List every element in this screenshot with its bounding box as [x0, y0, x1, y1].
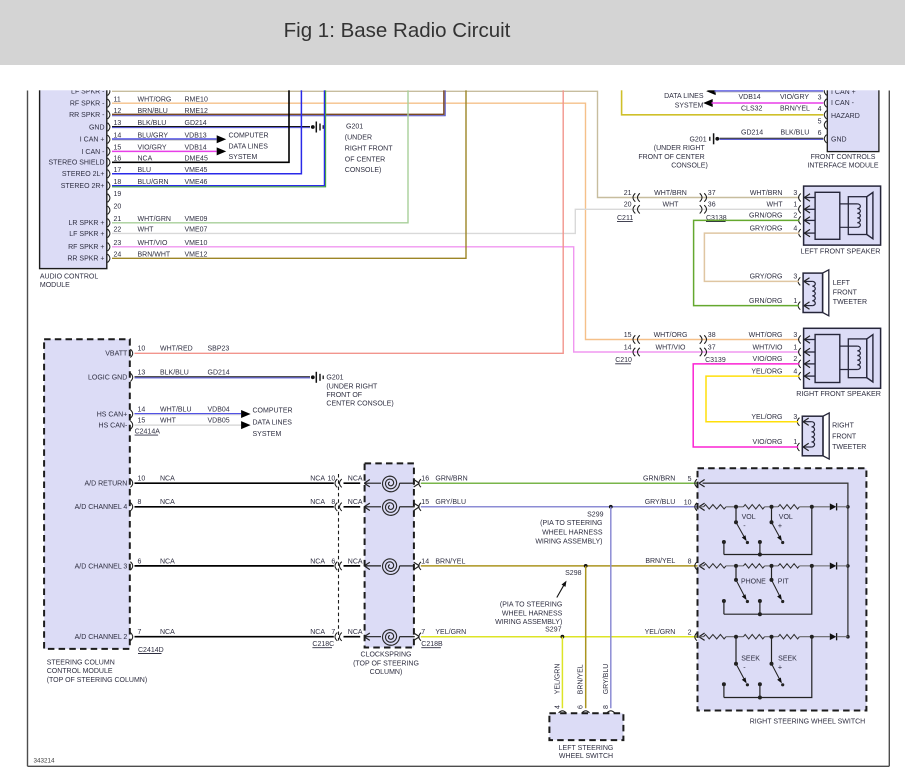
- svg-text:FRONT OF: FRONT OF: [326, 392, 362, 399]
- wire WHT/BRN pin10 to C211-21: [112, 91, 800, 197]
- svg-text:HAZARD: HAZARD: [831, 113, 860, 120]
- ACM pin 21 LR SPKR +: [108, 219, 110, 227]
- svg-text:RIGHT: RIGHT: [832, 423, 855, 430]
- svg-text:RME10: RME10: [185, 96, 208, 103]
- wire WHT pin22 to C211-20: [112, 209, 800, 233]
- FCIM pin 2 wire VDB13 BLU/GRY with data-lines arrow: [706, 87, 716, 95]
- svg-text:WHT/GRN: WHT/GRN: [138, 216, 171, 223]
- top clip overlay: [0, 65, 905, 91]
- clockspring coil row pin 15: [365, 506, 381, 508]
- svg-text:S299: S299: [587, 512, 603, 519]
- svg-text:VIO/ORG: VIO/ORG: [753, 356, 783, 363]
- svg-text:4: 4: [818, 106, 822, 113]
- svg-text:14: 14: [624, 344, 632, 351]
- svg-text:(TOP OF STEERING: (TOP OF STEERING: [353, 660, 419, 667]
- svg-text:WHT/ORG: WHT/ORG: [654, 332, 688, 339]
- ACM pin 17 STEREO 2L+: [108, 170, 110, 178]
- svg-text:HS CAN+: HS CAN+: [97, 411, 128, 418]
- wire BLU pin17 up to clip: [112, 86, 301, 174]
- switch blade 1: [735, 637, 737, 664]
- svg-text:RIGHT FRONT SPEAKER: RIGHT FRONT SPEAKER: [796, 389, 881, 398]
- svg-text:G201: G201: [689, 137, 706, 144]
- svg-text:WHT/VIO: WHT/VIO: [753, 344, 783, 351]
- ACM pin 23 RF SPKR +: [108, 243, 110, 251]
- SCCM pin 10 A/D RETURN: [130, 479, 132, 487]
- svg-text:2: 2: [688, 629, 692, 636]
- svg-text:A/D CHANNEL 4: A/D CHANNEL 4: [75, 504, 128, 511]
- svg-text:WIRING ASSEMBLY): WIRING ASSEMBLY): [495, 619, 562, 626]
- svg-text:WHEEL HARNESS: WHEEL HARNESS: [542, 529, 603, 536]
- splice S299: [609, 505, 613, 509]
- svg-text:VOL: VOL: [742, 514, 756, 521]
- svg-text:NCA: NCA: [348, 499, 363, 506]
- svg-text:VME10: VME10: [185, 240, 208, 247]
- svg-text:WHT: WHT: [663, 202, 680, 209]
- svg-text:DATA LINES: DATA LINES: [664, 93, 704, 100]
- svg-text:SYSTEM: SYSTEM: [229, 154, 258, 161]
- svg-text:BLU/GRN: BLU/GRN: [138, 179, 169, 186]
- svg-text:WHT: WHT: [767, 202, 784, 209]
- wire NCA A/D CHANNEL 4 to clockspring: [135, 506, 334, 508]
- svg-text:6: 6: [138, 558, 142, 565]
- svg-text:S298: S298: [565, 570, 581, 577]
- svg-text:19: 19: [114, 191, 122, 198]
- frame bottom border: [28, 765, 890, 767]
- svg-text:GRN/BRN: GRN/BRN: [643, 475, 675, 482]
- ACM pin 13 GND: [108, 123, 110, 131]
- svg-text:16: 16: [421, 476, 429, 483]
- svg-text:20: 20: [114, 203, 122, 210]
- svg-text:BLK/BLU: BLK/BLU: [160, 370, 189, 377]
- svg-text:TWEETER: TWEETER: [832, 444, 866, 451]
- svg-text:STEREO 2L+: STEREO 2L+: [62, 171, 105, 178]
- FCIM pin 5 no wire: [824, 121, 826, 129]
- svg-text:18: 18: [114, 179, 122, 186]
- svg-text:(UNDER RIGHT: (UNDER RIGHT: [326, 383, 378, 390]
- svg-text:NCA: NCA: [160, 499, 175, 506]
- ACM pin 14 I CAN +: [108, 135, 110, 143]
- svg-text:(UNDER RIGHT: (UNDER RIGHT: [654, 145, 706, 152]
- svg-text:HS CAN-: HS CAN-: [99, 423, 128, 430]
- wire YEL/GRN clockspring to right steering wheel switch: [421, 636, 700, 638]
- svg-text:+: +: [778, 521, 782, 530]
- svg-text:NCA: NCA: [160, 558, 175, 565]
- svg-text:21: 21: [114, 216, 122, 223]
- svg-text:6: 6: [578, 705, 585, 709]
- svg-text:YEL/ORG: YEL/ORG: [751, 414, 782, 421]
- wire WHT/VIO pin23 to C210-14: [112, 247, 800, 352]
- svg-text:11: 11: [114, 96, 121, 103]
- LSWS pin arcs 4 6 8: [559, 711, 567, 713]
- svg-text:COMPUTER: COMPUTER: [253, 408, 293, 415]
- svg-text:RF SPKR +: RF SPKR +: [68, 244, 104, 251]
- FCIM pin 4 wire CLS32 BRN/YEL from clip: [622, 90, 824, 115]
- svg-text:C2414A: C2414A: [135, 429, 161, 436]
- wire BRN/YEL clockspring to right steering wheel switch: [421, 565, 700, 567]
- svg-text:CENTER CONSOLE): CENTER CONSOLE): [326, 401, 393, 408]
- svg-text:4: 4: [793, 225, 797, 232]
- svg-text:BLU: BLU: [138, 167, 152, 174]
- svg-text:8: 8: [138, 499, 142, 506]
- left front speaker LS1: [804, 186, 881, 245]
- svg-text:I CAN +: I CAN +: [80, 137, 105, 144]
- svg-text:GD214: GD214: [741, 130, 763, 137]
- ACM pin 18 STEREO 2R+: [108, 182, 110, 190]
- svg-text:GRY/BLU: GRY/BLU: [435, 499, 466, 506]
- svg-text:4: 4: [793, 368, 797, 375]
- RSWS resistor ladder row y=636.7: [699, 633, 705, 637]
- splice S297: [561, 635, 565, 639]
- svg-text:10: 10: [684, 499, 692, 506]
- svg-text:VDB04: VDB04: [208, 406, 230, 413]
- wire GRY/BLU clockspring to right steering wheel switch: [421, 506, 700, 508]
- wire BRN/WHT pin24 up to clip: [112, 86, 466, 258]
- clockspring coil row pin 16: [365, 482, 381, 484]
- svg-text:AUDIO CONTROL: AUDIO CONTROL: [40, 273, 98, 280]
- svg-text:3: 3: [793, 190, 797, 197]
- svg-text:VDB14: VDB14: [739, 94, 761, 101]
- svg-text:GRN/ORG: GRN/ORG: [749, 298, 782, 305]
- svg-text:BRN/YEL: BRN/YEL: [435, 558, 465, 565]
- svg-text:3: 3: [818, 94, 822, 101]
- wire NCA A/D CHANNEL 3 to clockspring: [135, 565, 334, 567]
- svg-text:SYSTEM: SYSTEM: [253, 431, 282, 438]
- svg-text:RF SPKR -: RF SPKR -: [70, 101, 105, 108]
- SCCM pin 6 A/D CHANNEL 3: [130, 562, 132, 570]
- svg-text:VOL: VOL: [779, 514, 793, 521]
- svg-text:(PIA TO STEERING: (PIA TO STEERING: [500, 601, 562, 608]
- svg-text:WHEEL HARNESS: WHEEL HARNESS: [502, 610, 563, 617]
- svg-text:15: 15: [138, 418, 146, 425]
- svg-text:1: 1: [793, 202, 797, 209]
- svg-text:4: 4: [554, 705, 561, 709]
- ACM pin 11 RF SPKR -: [108, 99, 110, 107]
- svg-text:VIO/ORG: VIO/ORG: [753, 439, 783, 446]
- svg-text:WHT/RED: WHT/RED: [160, 346, 193, 353]
- svg-text:STEREO SHIELD: STEREO SHIELD: [48, 160, 104, 167]
- svg-text:6: 6: [818, 130, 822, 137]
- FCIM pin 3 wire VDB14 VIO/GRY with data-lines arrow: [703, 99, 713, 107]
- svg-text:VDB05: VDB05: [208, 418, 230, 425]
- switch contacts and return bus: [722, 540, 726, 544]
- ground G201 under right front of center console (SCCM): [311, 375, 315, 379]
- svg-text:WHT/BRN: WHT/BRN: [654, 190, 687, 197]
- svg-text:14: 14: [138, 406, 146, 413]
- SCCM pin 15 HS CAN-: [130, 421, 132, 429]
- svg-text:BRN/YEL: BRN/YEL: [578, 664, 585, 694]
- frame right border: [888, 91, 890, 767]
- svg-text:3: 3: [793, 332, 797, 339]
- svg-text:STEERING COLUMN: STEERING COLUMN: [47, 659, 115, 666]
- svg-text:NCA: NCA: [310, 558, 325, 565]
- ACM pin 19: [108, 194, 110, 202]
- ACM pin 24 RR SPKR +: [108, 254, 110, 262]
- wire VIO/GRY pin15 to computer data lines arrow: [112, 150, 217, 152]
- switch blade 2: [771, 566, 773, 580]
- wire VIO/ORG right speaker pin2 to right tweeter pin1: [693, 364, 799, 447]
- svg-text:LEFT: LEFT: [833, 280, 851, 287]
- svg-text:A/D CHANNEL 2: A/D CHANNEL 2: [75, 634, 128, 641]
- SCCM pin 7 A/D CHANNEL 2: [130, 633, 132, 641]
- SCCM pin 8 A/D CHANNEL 4: [130, 503, 132, 511]
- RSWS resistor ladder row y=506.8: [699, 503, 705, 507]
- svg-text:CONTROL MODULE: CONTROL MODULE: [47, 668, 113, 675]
- svg-text:STEREO 2R+: STEREO 2R+: [61, 183, 105, 190]
- svg-text:G201: G201: [346, 123, 363, 130]
- svg-text:15: 15: [421, 499, 429, 506]
- svg-text:I CAN -: I CAN -: [82, 149, 106, 156]
- svg-text:C2414D: C2414D: [138, 647, 164, 654]
- switch blade 2: [771, 637, 773, 664]
- svg-text:WIRING ASSEMBLY): WIRING ASSEMBLY): [535, 539, 602, 546]
- clockspring U4 box: [365, 463, 414, 647]
- svg-text:NCA: NCA: [348, 558, 363, 565]
- svg-text:LF SPKR +: LF SPKR +: [69, 231, 104, 238]
- svg-text:MODULE: MODULE: [40, 282, 70, 289]
- svg-text:23: 23: [114, 240, 122, 247]
- svg-text:1: 1: [793, 344, 797, 351]
- svg-text:BRN/YEL: BRN/YEL: [780, 106, 810, 113]
- svg-text:TWEETER: TWEETER: [833, 299, 867, 306]
- svg-text:INTERFACE MODULE: INTERFACE MODULE: [807, 162, 879, 169]
- svg-text:+: +: [778, 663, 782, 672]
- svg-text:2: 2: [793, 213, 797, 220]
- wire BLU/GRY pin14 to computer data lines arrow: [112, 138, 217, 140]
- svg-text:FRONT OF CENTER: FRONT OF CENTER: [638, 154, 704, 161]
- switch blade 1: [735, 507, 737, 522]
- svg-text:VME46: VME46: [185, 179, 208, 186]
- svg-text:WHT/VIO: WHT/VIO: [656, 344, 686, 351]
- svg-text:8: 8: [603, 705, 610, 709]
- svg-text:10: 10: [138, 476, 146, 483]
- switch contacts and return bus: [722, 682, 726, 686]
- svg-text:1: 1: [793, 298, 797, 305]
- svg-text:LR SPKR +: LR SPKR +: [69, 220, 105, 227]
- svg-text:SYSTEM: SYSTEM: [675, 103, 704, 110]
- svg-text:38: 38: [708, 332, 716, 339]
- svg-text:DATA LINES: DATA LINES: [229, 143, 269, 150]
- svg-text:BRN/YEL: BRN/YEL: [645, 558, 675, 565]
- svg-text:CONSOLE): CONSOLE): [345, 167, 382, 174]
- svg-text:DME45: DME45: [185, 156, 208, 163]
- svg-text:17: 17: [114, 167, 122, 174]
- svg-text:S297: S297: [545, 626, 561, 633]
- wire YEL/ORG right speaker pin4 to right tweeter pin3: [706, 376, 800, 422]
- wire BLU/GRN pin18 up to clip: [112, 86, 324, 186]
- front controls interface module U2 box: [827, 86, 879, 152]
- FCIM pin 6 wire GD214 BLK/BLU from G201: [720, 137, 824, 139]
- audio control module U1 box: [40, 86, 107, 269]
- svg-text:LOGIC GND: LOGIC GND: [88, 375, 127, 382]
- svg-text:VME09: VME09: [185, 216, 208, 223]
- svg-text:343214: 343214: [34, 758, 56, 765]
- clockspring coil row pin 7: [365, 636, 381, 638]
- svg-text:YEL/GRN: YEL/GRN: [645, 629, 676, 636]
- wire WHT/ORG pin11 to C210-15: [112, 103, 800, 339]
- left front tweeter LT1: [803, 273, 823, 312]
- switch contacts and return bus: [722, 599, 726, 603]
- svg-text:NCA: NCA: [310, 499, 325, 506]
- svg-text:10: 10: [138, 346, 146, 353]
- svg-text:WHT/ORG: WHT/ORG: [749, 332, 783, 339]
- svg-text:CLOCKSPRING: CLOCKSPRING: [361, 652, 412, 659]
- svg-text:BRN/WHT: BRN/WHT: [138, 252, 171, 259]
- svg-text:C211: C211: [617, 215, 633, 222]
- wire BLK/BLU pin13 to G201: [112, 126, 310, 128]
- svg-text:GRY/BLU: GRY/BLU: [603, 664, 610, 695]
- svg-text:A/D CHANNEL 3: A/D CHANNEL 3: [75, 563, 128, 570]
- SCCM pin 14 HS CAN+: [130, 410, 132, 418]
- svg-text:WHT/VIO: WHT/VIO: [138, 240, 168, 247]
- wire BRN/YEL splice to left steering wheel switch pin 6: [585, 566, 587, 708]
- svg-text:14: 14: [421, 558, 429, 565]
- svg-text:YEL/GRN: YEL/GRN: [554, 664, 561, 695]
- left steering wheel switch U5 box: [549, 713, 623, 740]
- svg-text:LEFT STEERING: LEFT STEERING: [559, 745, 614, 752]
- svg-text:5: 5: [818, 118, 822, 125]
- svg-text:OF CENTER: OF CENTER: [345, 156, 385, 163]
- wire GRN/BRN clockspring to right steering wheel switch: [421, 482, 700, 484]
- ACM pin 15 I CAN -: [108, 147, 110, 155]
- wire NCA A/D CHANNEL 2 to clockspring: [135, 636, 334, 638]
- svg-text:NCA: NCA: [348, 629, 363, 636]
- svg-text:NCA: NCA: [160, 629, 175, 636]
- ACM pin 12 RR SPKR -: [108, 111, 110, 119]
- ACM pin 22 LF SPKR +: [108, 229, 110, 237]
- wire GRN/ORG speaker pin2 to left tweeter pin1: [694, 220, 800, 305]
- svg-text:RIGHT FRONT: RIGHT FRONT: [345, 145, 393, 152]
- svg-text:YEL/GRN: YEL/GRN: [435, 629, 466, 636]
- svg-text:VME12: VME12: [185, 252, 208, 259]
- svg-text:21: 21: [624, 190, 632, 197]
- svg-text:37: 37: [708, 190, 716, 197]
- svg-text:13: 13: [138, 370, 146, 377]
- svg-text:C218B: C218B: [421, 641, 443, 648]
- svg-text:YEL/ORG: YEL/ORG: [751, 368, 782, 375]
- ground G201 under-right-front-of-center-console (top): [311, 125, 315, 129]
- wire NCA A/D RETURN to clockspring: [135, 482, 334, 484]
- svg-text:VIO/GRY: VIO/GRY: [138, 145, 167, 152]
- svg-text:(UNDER: (UNDER: [345, 134, 372, 141]
- svg-text:PHONE: PHONE: [741, 578, 766, 585]
- svg-text:CLS32: CLS32: [741, 106, 763, 113]
- svg-text:WHT/BRN: WHT/BRN: [750, 190, 783, 197]
- RSWS pin 5 return row: [699, 480, 705, 484]
- wire GRY/ORG speaker pin4 to left tweeter pin3: [704, 233, 799, 281]
- diode: [830, 503, 837, 510]
- svg-text:GND: GND: [831, 136, 847, 143]
- svg-text:C218C: C218C: [312, 641, 334, 648]
- svg-text:GD214: GD214: [208, 370, 230, 377]
- svg-text:PIT: PIT: [778, 578, 790, 585]
- wire WHT/BLU VDB04 to computer arrow: [135, 413, 242, 415]
- wire BLK/BLU GD214 to G201: [135, 376, 311, 378]
- frame left border: [27, 91, 29, 767]
- inline connector C218C dashed line: [338, 474, 340, 641]
- svg-text:15: 15: [624, 332, 632, 339]
- svg-text:LEFT FRONT SPEAKER: LEFT FRONT SPEAKER: [800, 247, 880, 256]
- svg-text:DATA LINES: DATA LINES: [253, 419, 293, 426]
- svg-text:COLUMN): COLUMN): [370, 669, 403, 676]
- svg-text:RR SPKR +: RR SPKR +: [67, 256, 104, 263]
- svg-text:37: 37: [708, 344, 716, 351]
- svg-text:VBATT: VBATT: [105, 351, 128, 358]
- svg-text:VIO/GRY: VIO/GRY: [780, 94, 809, 101]
- SCCM pin 10 VBATT: [130, 349, 132, 357]
- svg-text:GRN/ORG: GRN/ORG: [749, 213, 782, 220]
- svg-text:16: 16: [114, 156, 122, 163]
- svg-text:WHT: WHT: [138, 227, 155, 234]
- diode: [830, 633, 837, 640]
- svg-text:RR SPKR -: RR SPKR -: [69, 112, 105, 119]
- wire WHT VDB05 to computer arrow: [135, 424, 242, 426]
- wire WHT/RED SBP23 up to clip: [135, 86, 564, 353]
- svg-text:NCA: NCA: [138, 156, 153, 163]
- svg-text:NCA: NCA: [348, 476, 363, 483]
- svg-text:VDB14: VDB14: [185, 145, 207, 152]
- svg-text:FRONT: FRONT: [833, 290, 858, 297]
- svg-text:CONSOLE): CONSOLE): [671, 162, 708, 169]
- ACM pin 10 LF SPKR -: [108, 87, 110, 95]
- svg-text:NCA: NCA: [310, 629, 325, 636]
- svg-text:GRY/ORG: GRY/ORG: [750, 225, 783, 232]
- ACM pin 16 STEREO SHIELD: [108, 158, 110, 166]
- svg-text:5: 5: [688, 476, 692, 483]
- svg-text:C210: C210: [615, 357, 632, 364]
- svg-text:2: 2: [793, 356, 797, 363]
- svg-text:(PIA TO STEERING: (PIA TO STEERING: [540, 520, 602, 527]
- svg-text:VME07: VME07: [185, 227, 208, 234]
- svg-text:COMPUTER: COMPUTER: [229, 133, 269, 140]
- svg-text:GRY/ORG: GRY/ORG: [750, 274, 783, 281]
- svg-text:8: 8: [688, 559, 692, 566]
- svg-text:(TOP OF STEERING COLUMN): (TOP OF STEERING COLUMN): [47, 677, 147, 684]
- switch blade 2: [771, 507, 773, 522]
- wire WHT/GRN pin21 up to clip: [112, 86, 408, 223]
- wire YEL/GRN splice to left steering wheel switch pin 4: [561, 637, 563, 709]
- svg-text:3: 3: [793, 414, 797, 421]
- svg-text:WHT/ORG: WHT/ORG: [138, 96, 172, 103]
- svg-text:A/D RETURN: A/D RETURN: [85, 481, 128, 488]
- splice S298: [584, 564, 588, 568]
- right front speaker RS1: [804, 328, 881, 388]
- svg-text:24: 24: [114, 252, 122, 259]
- clockspring coil row pin 14: [365, 565, 381, 567]
- svg-text:G201: G201: [326, 375, 343, 382]
- svg-text:GRY/BLU: GRY/BLU: [645, 499, 676, 506]
- svg-text:WHT/BLU: WHT/BLU: [160, 406, 192, 413]
- svg-text:FRONT: FRONT: [832, 433, 857, 440]
- RSWS resistor ladder row y=565.9: [699, 562, 705, 566]
- svg-text:GND: GND: [89, 124, 105, 131]
- diode: [830, 563, 837, 570]
- svg-text:NCA: NCA: [160, 476, 175, 483]
- wire GRY/BLU splice to left steering wheel switch pin 8: [610, 507, 612, 709]
- wire NCA pin16 shield up to clip: [112, 86, 289, 162]
- svg-text:WHT: WHT: [160, 418, 177, 425]
- svg-text:FRONT CONTROLS: FRONT CONTROLS: [811, 154, 876, 161]
- ACM pin 20: [108, 206, 110, 214]
- svg-text:15: 15: [114, 145, 122, 152]
- svg-text:WHEEL SWITCH: WHEEL SWITCH: [559, 753, 613, 760]
- switch blade 1: [735, 566, 737, 580]
- svg-text:I CAN -: I CAN -: [831, 100, 855, 107]
- steering column control module U3 box: [44, 339, 130, 649]
- svg-text:NCA: NCA: [310, 476, 325, 483]
- right front tweeter RT1: [802, 416, 823, 456]
- svg-text:36: 36: [708, 202, 716, 209]
- svg-text:BLK/BLU: BLK/BLU: [781, 130, 810, 137]
